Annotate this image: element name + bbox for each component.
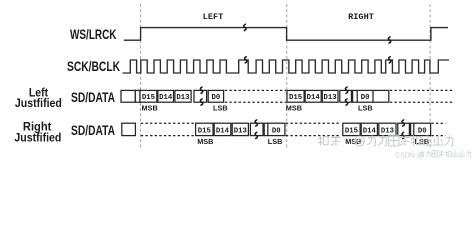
SCK/BCLK clock waveform [123, 60, 450, 73]
svg-text:MSB: MSB [345, 137, 361, 146]
svg-text:D14: D14 [307, 94, 321, 102]
svg-text:LSB: LSB [213, 104, 228, 113]
guideline at WS falling edge [286, 4, 288, 150]
row1 right data box D14 [305, 90, 321, 102]
row2 right data box D14 [361, 123, 377, 135]
row2 data box D14 [214, 123, 231, 135]
svg-text:SCK/BCLK: SCK/BCLK [67, 59, 120, 74]
break on clock right [389, 57, 391, 63]
row1 right data box D15 [287, 90, 304, 102]
svg-text:D13: D13 [381, 128, 395, 136]
row2 dashed idle left [141, 122, 195, 124]
svg-text:D15: D15 [142, 94, 155, 102]
svg-text:D15: D15 [198, 128, 211, 136]
row2 break cell [250, 123, 263, 135]
row2 right data box D15 [343, 123, 360, 135]
row1 dashed idle right [390, 89, 452, 91]
svg-text:Justfified: Justfified [14, 131, 61, 145]
svg-text:SD/DATA: SD/DATA [71, 123, 115, 138]
svg-text:LSB: LSB [268, 137, 283, 146]
row1 narrow cell [135, 90, 140, 102]
row1 data box D0 [208, 90, 223, 102]
svg-text:MSB: MSB [197, 137, 213, 146]
svg-text:D14: D14 [216, 128, 230, 136]
break on WS low right [388, 37, 390, 43]
svg-text:RIGHT: RIGHT [348, 12, 374, 22]
row2 data box D15 [196, 123, 213, 135]
guideline at end of right channel [429, 4, 431, 150]
break on WS high left [244, 24, 246, 30]
svg-text:D13: D13 [234, 128, 248, 136]
row2 dashed idle right [431, 122, 445, 124]
svg-text:D15: D15 [289, 94, 302, 102]
row2 right break cell [398, 123, 410, 135]
row1 right data box D13 [322, 90, 338, 102]
svg-text:D0: D0 [361, 94, 370, 102]
row1 data box D14 [158, 90, 174, 102]
break on clock left [245, 57, 247, 63]
row2 left empty box [122, 123, 136, 135]
svg-text:MSB: MSB [286, 104, 302, 113]
row2 right D0 block [411, 123, 431, 135]
svg-text:D0: D0 [418, 128, 427, 136]
watermark csdn [395, 151, 471, 160]
guideline at WS rising edge [139, 4, 141, 150]
row1 right D0 block [353, 90, 389, 102]
svg-text:Justfified: Justfified [15, 96, 62, 110]
svg-text:D14: D14 [159, 94, 173, 102]
svg-text:D13: D13 [176, 94, 190, 102]
row2 D0 block [264, 123, 285, 135]
svg-text:D0: D0 [272, 128, 281, 136]
row2 dashed idle middle [286, 122, 340, 124]
row2 data box D13 [232, 123, 248, 135]
svg-text:SD/DATA: SD/DATA [71, 90, 115, 105]
svg-text:D15: D15 [345, 128, 358, 136]
row2 right data box D13 [379, 123, 396, 135]
row1 dashed idle middle [225, 89, 286, 91]
WS/LRCK waveform [124, 28, 448, 41]
svg-text:LEFT: LEFT [203, 12, 224, 22]
watermark zhihu [318, 135, 453, 146]
row1 data box D15 [140, 90, 157, 102]
svg-text:MSB: MSB [142, 104, 158, 113]
row1 left empty box [121, 90, 135, 102]
svg-text:LSB: LSB [358, 104, 373, 113]
row1 data box D13 [175, 90, 191, 102]
svg-text:D14: D14 [363, 128, 377, 136]
svg-text:D0: D0 [212, 94, 221, 102]
svg-text:WS/LRCK: WS/LRCK [70, 27, 117, 42]
svg-text:D13: D13 [324, 94, 338, 102]
row1 break cell [194, 90, 207, 102]
row1 right break cell [340, 90, 352, 102]
